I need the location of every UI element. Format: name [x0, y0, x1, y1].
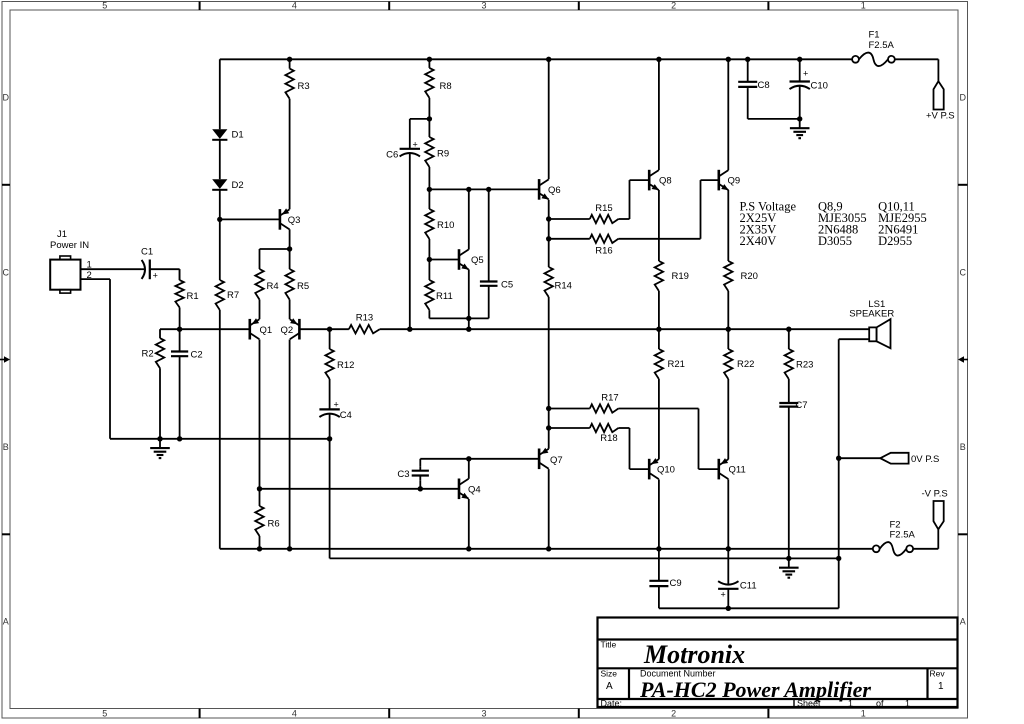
- resistor R23: [788, 329, 790, 349]
- wire rail corner to D1: [219, 59, 221, 129]
- wire main output bus: [410, 328, 869, 330]
- wire Q10 emitter down: [658, 479, 660, 548]
- transistor Q4: [458, 479, 461, 500]
- svg-text:Q3: Q3: [288, 215, 301, 226]
- svg-text:C5: C5: [501, 279, 513, 290]
- svg-text:Q6: Q6: [548, 185, 561, 196]
- node ground-bus right end: [836, 556, 841, 561]
- node R23-bus: [786, 327, 791, 332]
- resistor R8: [428, 59, 430, 68]
- svg-text:D2955: D2955: [878, 234, 912, 248]
- svg-text:C2: C2: [191, 350, 203, 361]
- svg-text:D2: D2: [232, 180, 244, 191]
- svg-text:A: A: [3, 617, 9, 627]
- capacitor C7: [788, 402, 790, 404]
- node rail-Q9 collector: [726, 57, 731, 62]
- wire R14 bottom to Q7 collector: [548, 297, 550, 449]
- svg-text:+: +: [334, 400, 339, 410]
- svg-text:PA-HC2 Power Amplifier: PA-HC2 Power Amplifier: [639, 677, 871, 702]
- resistor R14: [545, 267, 553, 297]
- ground under ground-bus: [788, 558, 790, 567]
- svg-text:C10: C10: [811, 81, 828, 92]
- wire C6 top: [410, 118, 430, 120]
- wire D2 to junction: [219, 190, 221, 220]
- wire F2 right to -V port: [913, 548, 938, 550]
- svg-text:Power IN: Power IN: [50, 240, 89, 251]
- svg-text:of: of: [876, 698, 884, 708]
- wire R18 row: [549, 427, 590, 429]
- svg-text:R2: R2: [142, 349, 154, 360]
- svg-text:C9: C9: [670, 578, 682, 589]
- wire C1 to R1: [150, 268, 180, 270]
- wire Q7 emitter down: [548, 469, 550, 549]
- resistor R16: [590, 235, 619, 243]
- wire Q2 base to R13 node: [300, 328, 329, 330]
- wire R16 row: [549, 238, 590, 240]
- svg-text:C7: C7: [795, 400, 807, 411]
- resistor R3: [289, 59, 291, 68]
- node Q4 collector top: [466, 456, 471, 461]
- node rail-C10: [797, 57, 802, 62]
- transistor Q2: [298, 319, 301, 340]
- wire +V top rail: [220, 58, 852, 60]
- svg-text:B: B: [3, 442, 9, 452]
- svg-text:Rev: Rev: [930, 669, 946, 679]
- transistor Q7: [538, 449, 541, 470]
- wire Q3e to R4: [289, 229, 291, 249]
- capacitor C2: [179, 329, 181, 351]
- node rail-R8: [427, 57, 432, 62]
- svg-text:Date:: Date:: [601, 698, 623, 708]
- transistor Q9: [717, 170, 720, 191]
- node rail-C8: [745, 57, 750, 62]
- svg-text:R20: R20: [741, 271, 758, 282]
- svg-text:R1: R1: [187, 291, 199, 302]
- wire J1 pin1: [81, 268, 142, 270]
- svg-text:1: 1: [905, 698, 910, 708]
- wire C3 bottom lead: [419, 480, 421, 489]
- svg-text:R5: R5: [297, 281, 309, 292]
- svg-text:R7: R7: [227, 290, 239, 301]
- wire Q5 base: [429, 259, 458, 261]
- svg-text:R23: R23: [796, 360, 813, 371]
- transistor Q8: [648, 170, 651, 191]
- wire speaker column to ground bus: [838, 458, 840, 558]
- svg-text:1: 1: [861, 1, 866, 11]
- wire Q5 collector up: [468, 189, 470, 249]
- svg-text:+: +: [803, 69, 808, 79]
- node R17-R18 link: [546, 425, 551, 430]
- wire R17 row: [549, 408, 590, 410]
- wire Q3 emitter junction: [287, 246, 292, 251]
- resistor R19: [658, 190, 660, 261]
- svg-text:R12: R12: [337, 360, 354, 371]
- fuse F1: [852, 56, 859, 63]
- resistor R18: [590, 424, 619, 432]
- svg-text:R13: R13: [356, 313, 373, 324]
- svg-text:Size: Size: [601, 669, 618, 679]
- svg-text:3: 3: [481, 1, 486, 11]
- svg-text:C: C: [3, 267, 10, 277]
- svg-text:A: A: [960, 617, 966, 627]
- ground under C10: [799, 119, 801, 128]
- transistor Q5: [458, 249, 461, 270]
- wire Q5e down to bus: [468, 318, 470, 329]
- svg-text:R18: R18: [600, 433, 617, 444]
- wire rail to F1 right / corner to +V port: [895, 58, 939, 60]
- wire Q4 base row: [260, 488, 459, 490]
- wire C4 junction down to ground bus: [329, 439, 331, 559]
- node R22-bus: [726, 327, 731, 332]
- node C3 bottom: [418, 486, 423, 491]
- resistor R15: [590, 215, 619, 223]
- title block: [598, 618, 958, 708]
- svg-text:R22: R22: [737, 359, 754, 370]
- wire R16 corner to Q9 base: [618, 238, 700, 240]
- svg-text:Q4: Q4: [468, 485, 481, 496]
- wire R15 corner to Q8 base: [618, 218, 629, 220]
- node Q4e-bus1: [466, 546, 471, 551]
- wire Q4 collector up: [468, 459, 470, 479]
- svg-text:Q9: Q9: [728, 176, 741, 187]
- wire Q2 collector down: [289, 340, 291, 549]
- node Q1 collector - R6: [257, 486, 262, 491]
- svg-text:4: 4: [292, 708, 297, 718]
- node rail-Q6 collector: [546, 57, 551, 62]
- wire J1 pin2: [81, 278, 111, 280]
- wire 0V port lead: [839, 457, 881, 459]
- node C2-ground: [177, 436, 182, 441]
- capacitor C11: [727, 549, 729, 585]
- node rail-R3: [287, 57, 292, 62]
- capacitor C1: [142, 260, 145, 279]
- wire Q5 emitter down: [468, 269, 470, 318]
- connector J1: [50, 260, 80, 290]
- resistor R22: [727, 329, 729, 349]
- wire D2 to Q3 base junction: [217, 217, 222, 222]
- resistor R2: [159, 329, 161, 338]
- svg-text:+: +: [153, 270, 158, 280]
- resistor R12: [329, 329, 331, 349]
- node R8-R9-C6: [427, 116, 432, 121]
- wire C3 top row to Q7 base: [420, 458, 538, 460]
- svg-text:-V P.S: -V P.S: [922, 489, 948, 500]
- power port 0V P.S: [880, 453, 908, 464]
- transistor Q6: [538, 179, 541, 200]
- wire C9-C11 bottom row: [658, 603, 660, 608]
- svg-text:F2.5A: F2.5A: [890, 530, 916, 541]
- node R12-R13: [327, 327, 332, 332]
- svg-text:A: A: [606, 681, 613, 692]
- wire speaker top lead: [868, 328, 870, 330]
- svg-text:Q11: Q11: [729, 465, 746, 476]
- svg-text:SPEAKER: SPEAKER: [849, 309, 894, 320]
- svg-text:R3: R3: [298, 81, 310, 92]
- wire R11 bottom to C5 bottom: [428, 310, 430, 318]
- transistor Q10: [648, 459, 651, 480]
- svg-text:Title: Title: [601, 640, 617, 650]
- svg-text:2X40V: 2X40V: [740, 234, 777, 248]
- svg-text:Motronix: Motronix: [643, 640, 745, 669]
- capacitor C6 column: [409, 119, 411, 149]
- capacitor C8: [747, 59, 749, 82]
- wire Q8 collector up: [658, 59, 660, 170]
- node R1-C2: [177, 327, 182, 332]
- node R2-ground: [157, 436, 162, 441]
- resistor R21: [658, 329, 660, 349]
- svg-text:+V P.S: +V P.S: [926, 111, 955, 122]
- svg-text:Q7: Q7: [550, 455, 563, 466]
- node Q5 emitter: [466, 316, 471, 321]
- wire C8 to C10 bottom: [747, 89, 749, 119]
- svg-text:F2.5A: F2.5A: [869, 40, 895, 51]
- svg-text:0V P.S: 0V P.S: [911, 454, 939, 465]
- node R9-R10: [427, 187, 432, 192]
- speaker LS1: [869, 327, 876, 341]
- resistor R10: [428, 189, 430, 209]
- svg-text:1: 1: [848, 698, 853, 708]
- svg-text:R21: R21: [668, 359, 685, 370]
- capacitor C9: [658, 549, 660, 581]
- svg-text:R17: R17: [601, 393, 618, 404]
- svg-text:R11: R11: [436, 291, 453, 302]
- node ground-bus ground symbol: [786, 556, 791, 561]
- svg-text:C4: C4: [340, 410, 352, 421]
- resistor R9: [428, 119, 430, 137]
- svg-text:Q8: Q8: [659, 176, 672, 187]
- node Q4c-Q5e bus: [466, 327, 471, 332]
- wire speaker bottom lead: [839, 338, 870, 340]
- node C11 bottom: [726, 606, 731, 611]
- resistor R13: [330, 328, 349, 330]
- wire Q6 collector up: [548, 59, 550, 179]
- svg-text:D1: D1: [232, 130, 244, 141]
- wire Q6e-R14 link: [548, 200, 550, 267]
- node R21-bus: [656, 327, 661, 332]
- resistor R7: [219, 219, 221, 280]
- node Q5 collector top: [466, 187, 471, 192]
- svg-text:R19: R19: [672, 271, 689, 282]
- power port +V P.S: [934, 81, 944, 109]
- power port -V P.S: [934, 501, 944, 529]
- svg-text:R8: R8: [440, 81, 452, 92]
- svg-text:Q2: Q2: [281, 325, 294, 336]
- wire Q1 collector down: [259, 340, 261, 489]
- svg-text:R9: R9: [437, 149, 449, 160]
- svg-text:C8: C8: [758, 80, 770, 91]
- node Q2c-bus1: [287, 546, 292, 551]
- svg-text:+: +: [721, 590, 726, 600]
- wire Q11 emitter down: [727, 479, 729, 548]
- node Q6e-R16: [546, 236, 551, 241]
- node Q11-C11-bus1: [726, 546, 731, 551]
- svg-text:Q1: Q1: [260, 325, 273, 336]
- svg-text:D3055: D3055: [818, 234, 852, 248]
- resistor R17: [590, 404, 619, 412]
- svg-text:B: B: [960, 442, 966, 452]
- capacitor C6: [409, 148, 411, 150]
- wire Q6 base: [429, 188, 538, 190]
- node C6-bus: [407, 327, 412, 332]
- node C5 top: [486, 187, 491, 192]
- transistor Q1: [249, 319, 252, 340]
- fuse F2: [873, 545, 880, 552]
- svg-text:4: 4: [292, 1, 297, 11]
- left centering arrow: [0, 359, 5, 361]
- wire R18 corner to Q10 base: [618, 427, 629, 429]
- capacitor C3: [419, 466, 421, 471]
- node rail-Q8 collector: [656, 57, 661, 62]
- node Q6e-R15: [546, 216, 551, 221]
- svg-text:R16: R16: [595, 245, 612, 256]
- resistor R6: [259, 489, 261, 506]
- svg-text:2: 2: [671, 1, 676, 11]
- resistor R20: [727, 190, 729, 261]
- wire -V bus: [220, 548, 873, 550]
- node Q10-C9-bus1: [656, 546, 661, 551]
- svg-text:C1: C1: [141, 247, 153, 258]
- ground under R2-C2: [159, 439, 161, 448]
- svg-text:J1: J1: [57, 229, 67, 240]
- svg-text:Q5: Q5: [471, 255, 484, 266]
- svg-text:F1: F1: [869, 30, 880, 41]
- svg-text:+: +: [413, 140, 418, 150]
- capacitor C5: [488, 189, 490, 281]
- node R10-R11: [427, 257, 432, 262]
- wire Q4 emitter down: [468, 499, 470, 549]
- svg-text:R14: R14: [555, 281, 572, 292]
- svg-text:5: 5: [102, 708, 107, 718]
- svg-text:C11: C11: [740, 581, 757, 592]
- resistor R1: [179, 269, 181, 280]
- svg-text:C: C: [960, 267, 967, 277]
- svg-text:3: 3: [481, 708, 486, 718]
- svg-text:C6: C6: [386, 150, 398, 161]
- wire J1 pin2 drop: [109, 279, 111, 439]
- svg-text:C3: C3: [397, 469, 409, 480]
- svg-text:Q10: Q10: [657, 465, 675, 476]
- svg-text:Sheet: Sheet: [797, 698, 821, 708]
- node R14-R17: [546, 406, 551, 411]
- wire R15 row: [549, 218, 590, 220]
- capacitor C10: [799, 59, 801, 81]
- wire input node to Q1 base: [160, 328, 249, 330]
- svg-text:R6: R6: [268, 519, 280, 530]
- svg-text:R4: R4: [267, 281, 279, 292]
- resistor R11: [428, 260, 430, 281]
- node C4-ground row: [327, 436, 332, 441]
- wire R17 corner to Q11 base: [618, 408, 698, 410]
- right centering arrow: [963, 359, 968, 361]
- svg-text:D: D: [960, 93, 967, 103]
- svg-text:5: 5: [102, 1, 107, 11]
- wire Q9 collector up: [727, 59, 729, 170]
- svg-text:2: 2: [671, 708, 676, 718]
- node Q7e-bus1: [546, 546, 551, 551]
- svg-text:R10: R10: [437, 220, 454, 231]
- svg-text:1: 1: [938, 681, 944, 692]
- transistor Q11: [717, 459, 720, 480]
- resistor R4: [259, 249, 261, 269]
- wire ground row: [110, 438, 330, 440]
- node C10-ground: [797, 116, 802, 121]
- svg-text:1: 1: [861, 708, 866, 718]
- svg-text:D: D: [3, 93, 10, 103]
- resistor R5: [289, 249, 291, 269]
- diode D1: [212, 129, 227, 139]
- capacitor C4: [329, 408, 331, 410]
- svg-text:R15: R15: [595, 203, 612, 214]
- diode D2: [212, 179, 227, 189]
- wire D1 to D2: [219, 140, 221, 179]
- transistor Q3: [279, 209, 282, 230]
- node 0V port tap: [836, 456, 841, 461]
- node R6-bus1: [257, 546, 262, 551]
- wire Q3 base: [220, 218, 279, 220]
